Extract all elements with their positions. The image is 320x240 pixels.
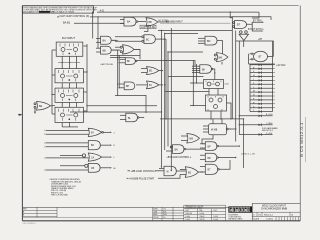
svg-text:D.L.: D.L.: [163, 217, 167, 219]
gate G12 AND mid-bottom: [166, 145, 186, 154]
svg-text:CLK: CLK: [225, 84, 230, 86]
pulse box M1: [190, 80, 229, 89]
svg-text:BK: BK: [202, 69, 206, 71]
svg-text:D-W512: D-W512: [267, 219, 274, 221]
wire G7 output branch B-NOT SYNC: [248, 24, 265, 32]
wire G7 output to BT TRIG arrow: [247, 21, 265, 25]
svg-text:M: M: [114, 168, 116, 170]
svg-text:D-001: D-001: [214, 216, 219, 218]
gate G23 NOR mid-right top: [214, 53, 228, 62]
svg-text:d: d: [230, 208, 232, 212]
gate G11 OR mid-bottom: [181, 134, 200, 144]
wire FF4 bottom drops: [62, 122, 78, 127]
power rung -15V: [239, 114, 273, 117]
one-shot wire loop top: [236, 41, 273, 57]
flip-flop FF4: [55, 107, 83, 122]
wire right trunk x=243.5: [243, 119, 245, 168]
wire FF right stubs: [83, 46, 87, 111]
svg-text:LAST PULSE: LAST PULSE: [101, 63, 114, 66]
ladder pin stubs right: [273, 65, 275, 108]
bottom-left gate G25 OR: [88, 128, 103, 136]
svg-text:BC: BC: [146, 38, 150, 41]
wire G15 output to G16: [176, 170, 186, 172]
svg-text:D-664: D-664: [200, 213, 205, 215]
wire right trunk x=87 beside FFs: [86, 44, 88, 112]
wire NORL bottom stub with arrow: [34, 108, 36, 114]
svg-text:BM: BM: [190, 139, 194, 141]
wire BA-B1 net y=23: [74, 22, 124, 24]
right edge rotated drawing number: [299, 117, 306, 162]
svg-text:BP: BP: [208, 146, 212, 148]
wire horizontal y=118.9: [160, 118, 244, 120]
wire FLIP CHIP CONTROL net y=16.9: [90, 16, 232, 18]
gate M3 big nand box: [203, 124, 228, 135]
one-shot gate blob: [254, 51, 268, 61]
svg-text:D-664: D-664: [186, 216, 191, 218]
logo caption: [228, 214, 243, 220]
gate G17 AND bubble bottom-right: [200, 164, 219, 174]
flip-flop FF3: [55, 88, 83, 102]
ladder pin letters: [253, 67, 255, 112]
diode ladder rails: [250, 41, 273, 112]
svg-text:D-003: D-003: [214, 219, 219, 221]
svg-text:SYNCHRONIZER BMB: SYNCHRONIZER BMB: [261, 208, 287, 211]
svg-text:BJ: BJ: [149, 85, 152, 87]
svg-text:C GND: C GND: [266, 123, 273, 125]
wire G26 output arrow: [100, 144, 115, 147]
svg-text:W MB: W MB: [211, 130, 218, 132]
revision table bottom-left: [22, 207, 57, 217]
wire left rail beside FFs: [51, 50, 53, 114]
wire FF left stubs: [52, 50, 56, 114]
wire G20 output arrow: [159, 70, 164, 71]
gate G1 NAND top-center: [120, 17, 138, 26]
wire G6 output drop to G19: [134, 49, 140, 59]
svg-text:1N276: 1N276: [200, 219, 205, 221]
gate G22 OR mid-left lower: [136, 81, 159, 89]
wire bundle verticals x=193.3 196.6: [193, 61, 196, 106]
wire y=57.6 stub: [110, 57, 126, 59]
svg-text:+10 VDC: +10 VDC: [276, 65, 286, 67]
personnel table: [153, 207, 184, 221]
svg-text:BN: BN: [175, 149, 179, 151]
wire G2 output arrow NOT USED: [158, 20, 170, 23]
wire M3 bottom stub to G13: [202, 135, 213, 144]
wire net A-D horizontal y=12: [97, 11, 259, 13]
wire y=76.5 M1 feed: [168, 76, 204, 78]
wire G3 output arrow: [155, 38, 166, 39]
wire horizontal y=33.5: [165, 33, 198, 35]
svg-text:BE: BE: [39, 105, 43, 108]
gate G18 NAND left of mid: [120, 113, 139, 122]
wire verticals x=117.7 x=119.2: [118, 50, 120, 95]
svg-text:J: J: [114, 132, 115, 134]
svg-text:BT: BT: [237, 24, 241, 27]
wire FF3-FF4 links: [62, 102, 76, 107]
gate G7 output gate top-right: [233, 21, 247, 29]
wire M1 bottom stubs: [209, 89, 218, 96]
svg-text:B +10V: B +10V: [266, 114, 273, 116]
wire bus into G6/G3 from left: [115, 37, 142, 47]
wire vertical x=98: [97, 17, 99, 48]
gate G19 AND mid-left: [120, 58, 137, 65]
one-shot input diodes: [250, 53, 255, 61]
wire G27 output arrow: [102, 156, 116, 159]
gate G15 AND bottom-mid: [159, 166, 176, 176]
gate G5 AND: [96, 46, 111, 54]
title block strip: [22, 207, 252, 217]
wire G24 out to vertical: [213, 69, 215, 80]
note FOR HARDWARE: [262, 127, 278, 132]
svg-text:+BT: +BT: [258, 39, 263, 41]
gate G13 AND bubble mid-right: [200, 142, 218, 151]
flip-flop FF2: [55, 69, 83, 83]
wire under BT MSB label: [160, 22, 230, 24]
wire vertical x=92.7: [92, 12, 94, 38]
svg-text:+MB LOAD CONTROL L: +MB LOAD CONTROL L: [131, 170, 157, 173]
svg-text:l: l: [248, 208, 249, 212]
svg-text:B CS W512-0-1: B CS W512-0-1: [299, 122, 304, 157]
wire G1 output to G2: [138, 21, 146, 23]
wire G25 output arrow: [103, 132, 114, 135]
svg-text:BG: BG: [149, 71, 153, 73]
svg-text:BA: BA: [103, 40, 107, 43]
wire FF1-FF2 links: [58, 56, 80, 68]
svg-text:FLIP CHIP CONTROL (K): FLIP CHIP CONTROL (K): [60, 14, 90, 18]
wire M3 output arrow: [228, 128, 236, 129]
svg-text:1N645: 1N645: [200, 216, 205, 218]
bottom-left gate G27 OR w/ circle: [82, 153, 101, 161]
one-shot left/bottom wires: [249, 54, 275, 64]
svg-text:PROD: PROD: [153, 217, 159, 219]
wire G4 output to trunk: [111, 39, 118, 41]
label +IN BMB PULSE START: [127, 175, 181, 181]
wire NORL output: [51, 105, 56, 107]
svg-text:B NOT SYNC L: B NOT SYNC L: [248, 29, 265, 31]
wire drop to gate G7 at x=230.2: [230, 12, 232, 18]
svg-text:BY: BY: [91, 133, 95, 135]
wire G18 output arrow: [139, 117, 145, 118]
label LAST PULSE boxed: [140, 25, 156, 29]
gate NORL left nor: [34, 101, 51, 110]
gate G2 NOR: [146, 18, 158, 27]
svg-text:a: a: [245, 208, 247, 212]
wire horizontal y=52: [168, 51, 203, 53]
svg-text:LOGIC 1 = -3V: LOGIC 1 = -3V: [241, 154, 255, 156]
svg-text:i: i: [239, 208, 240, 212]
wire G2 output drop to G3: [144, 26, 148, 31]
wire G25 inputs: [45, 130, 89, 135]
power rung -15: [239, 133, 273, 136]
power rung GND: [239, 123, 273, 126]
title box right: [252, 203, 300, 221]
wire M3 top stubs: [213, 119, 222, 124]
gate G20 OR mid-left: [141, 67, 159, 75]
svg-text:+IN BMB PULSE START: +IN BMB PULSE START: [129, 177, 155, 180]
wire G16 output arrow: [199, 171, 204, 173]
wire funnel to one-shot: [243, 41, 245, 48]
conversion chart: [184, 205, 226, 221]
svg-text:SEE NOTE 2: SEE NOTE 2: [262, 130, 273, 132]
wire G6 output: [134, 48, 140, 50]
svg-text:ENG: ENG: [153, 214, 157, 216]
wire G23 stub down: [221, 62, 223, 65]
wire drop at x=259: [252, 12, 259, 18]
gate G16 OR bottom-mid: [180, 167, 199, 178]
wire y=105.8: [87, 105, 157, 107]
wire G22 output arrow: [159, 84, 164, 85]
svg-text:J: J: [253, 79, 254, 81]
svg-text:BA: BA: [127, 21, 131, 24]
svg-text:DRN: DRN: [153, 209, 158, 211]
ladder rungs with diodes: [250, 64, 273, 113]
svg-text:MAYNARD, MASS.: MAYNARD, MASS.: [228, 218, 243, 221]
svg-text:BR: BR: [208, 158, 212, 160]
wire y=91.4 M2 feed: [165, 90, 209, 92]
wire right trunk x=239.3: [238, 41, 240, 135]
svg-text:i: i: [233, 208, 234, 212]
svg-text:BB: BB: [149, 21, 153, 24]
svg-text:BT TRIG: BT TRIG: [253, 21, 262, 23]
svg-text:B-D INPUT: B-D INPUT: [62, 36, 75, 40]
gate G24 AND mid-right: [192, 65, 213, 74]
svg-text:CB: CB: [91, 168, 95, 170]
wire y=112: [70, 111, 162, 113]
wire FF2-FF3 links: [62, 83, 76, 88]
wire G28 output arrow: [100, 167, 115, 170]
wire G28 inputs: [45, 166, 88, 171]
wire M2 bottom stubs: [211, 111, 221, 119]
wire G14 output: [218, 157, 235, 159]
label +MB LOAD CONTROL L: [128, 170, 165, 173]
gate G21 AND mid-left lower: [119, 82, 135, 90]
wire G5 output to trunk: [111, 49, 119, 51]
connector blob at border: [18, 114, 22, 116]
svg-text:W512-0-1: W512-0-1: [264, 215, 274, 217]
svg-text:BB: BB: [103, 49, 107, 52]
svg-text:CA: CA: [91, 156, 95, 159]
notice box top-left: [22, 6, 98, 14]
svg-text:PINS C,F GROUND: PINS C,F GROUND: [51, 195, 69, 197]
wire G17 output: [219, 160, 230, 169]
svg-text:D-662: D-662: [186, 219, 191, 221]
svg-text:W.H.: W.H.: [163, 214, 167, 216]
wire right trunk x=235.7: [235, 31, 237, 142]
wire G27 inputs: [45, 156, 89, 159]
svg-text:SCALE: SCALE: [253, 218, 260, 221]
flip-flop FF1: [56, 42, 83, 56]
gate G3 AND bubble inputs: [142, 35, 156, 44]
wire M2 right stub: [227, 103, 232, 119]
svg-text:g: g: [236, 208, 238, 212]
pulse box M2: [190, 95, 227, 111]
svg-text:J.S.: J.S.: [163, 209, 167, 211]
svg-text:R.B.: R.B.: [163, 211, 167, 213]
svg-text:BA B1: BA B1: [63, 21, 71, 25]
svg-text:BS: BS: [188, 173, 192, 175]
wire top-right feeder y=16.8: [232, 17, 271, 20]
wire trunk verticals middle bundle: [162, 28, 172, 171]
wire horizontal y=60.5 from G19: [137, 61, 195, 67]
gate G6 OR with input bubbles: [112, 40, 134, 54]
svg-text:BD: BD: [207, 40, 211, 43]
pulse amp funnel below G7: [239, 31, 249, 41]
DEC digital logo: [228, 206, 252, 212]
wire y=95.4: [115, 95, 146, 113]
gate G14 AND bubble mid-right: [200, 153, 218, 162]
bottom-left gate G26 AND: [88, 141, 100, 150]
wire horizontal y=30.5: [158, 30, 232, 32]
wire G26 inputs: [45, 142, 88, 147]
gate G4 AND: [96, 36, 111, 44]
svg-text:D -15V: D -15V: [266, 133, 273, 135]
notes text block: [50, 178, 82, 196]
svg-text:DEC FORM 10: DEC FORM 10: [23, 223, 36, 225]
svg-text:+BT LOAD CONTROL L: +BT LOAD CONTROL L: [167, 156, 193, 159]
gate G8 AND mid-top: [198, 36, 217, 45]
wire G13 output: [218, 145, 239, 147]
wire y=55.5 under G6: [110, 55, 140, 57]
svg-text:2894-1B: 2894-1B: [186, 213, 193, 215]
bottom-left gate G28 AND w/ circle: [85, 163, 100, 172]
svg-text:BH: BH: [126, 86, 130, 88]
wire right trunk x=232.3: [231, 17, 233, 119]
wire G12 output: [186, 148, 205, 150]
border frame: [22, 6, 300, 221]
wire stub left of label: [57, 16, 59, 18]
wire G8 output: [217, 41, 223, 54]
